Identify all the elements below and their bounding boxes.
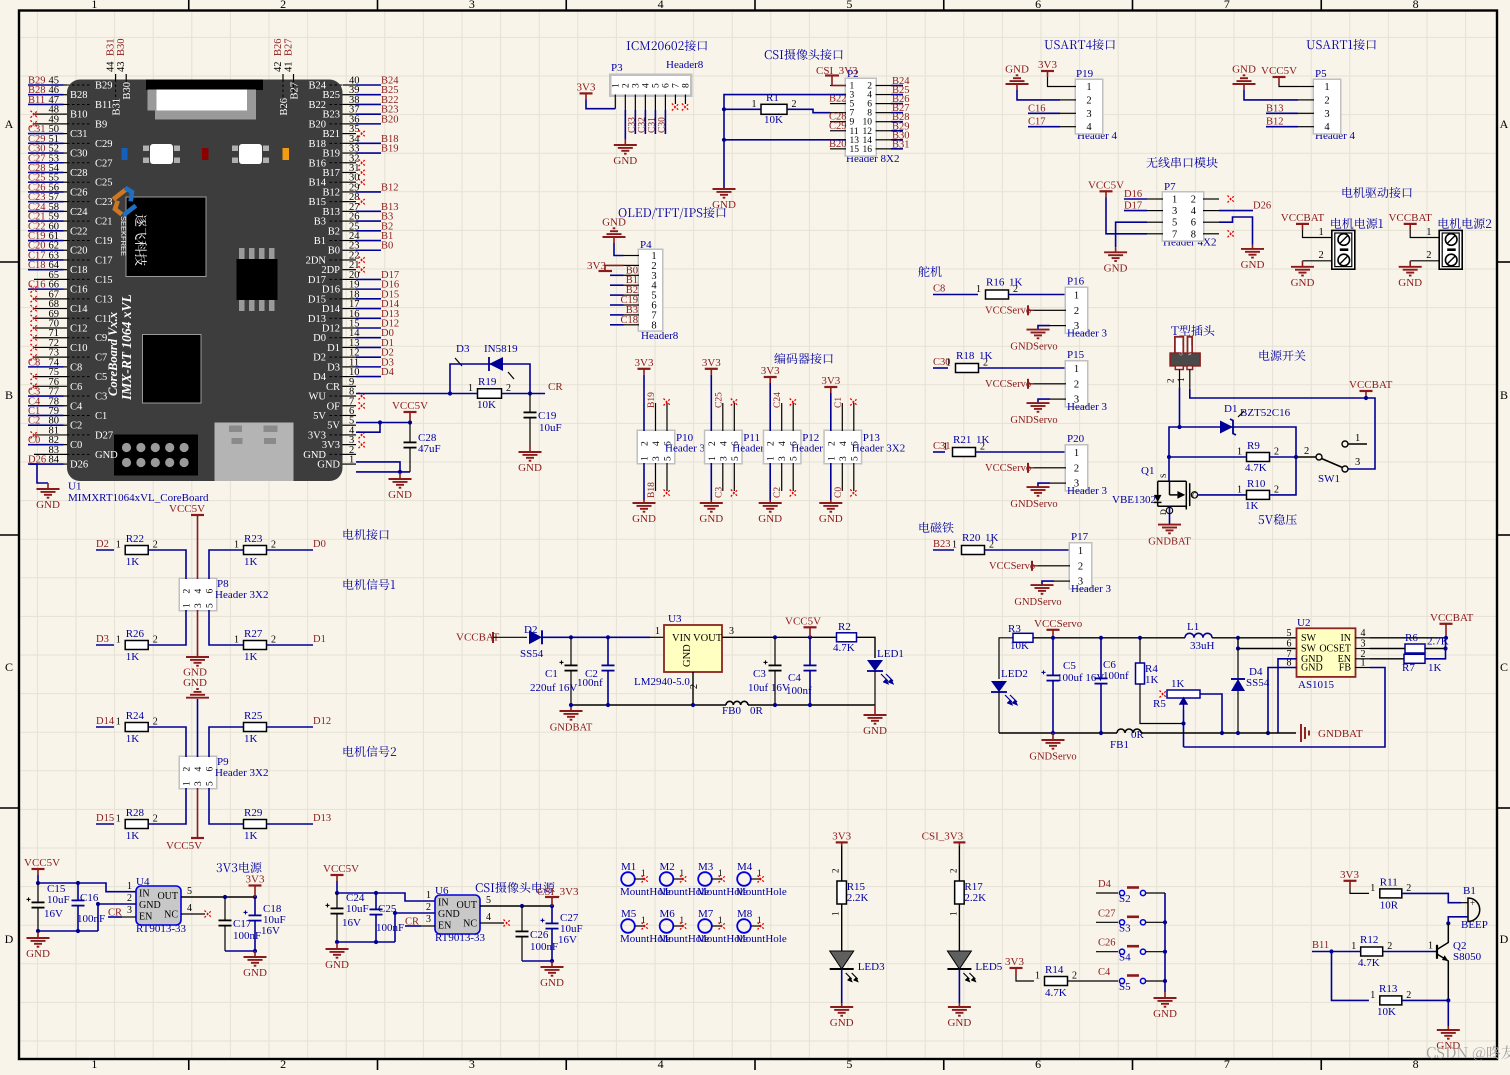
ground GND under P10 <box>643 500 645 503</box>
wire U1 pin1 GND to node <box>356 471 410 473</box>
net label C30 at P3 pin6 <box>664 110 666 134</box>
svg-text:1: 1 <box>116 635 121 646</box>
svg-text:L1: L1 <box>1187 621 1199 633</box>
svg-text:C0: C0 <box>70 440 82 451</box>
svg-text:7: 7 <box>1224 0 1230 11</box>
svg-text:GND: GND <box>1241 259 1265 271</box>
svg-text:R3: R3 <box>1008 623 1021 635</box>
svg-text:VCC5V: VCC5V <box>1261 65 1297 77</box>
power VCC5V at P5 pin1 <box>1273 76 1286 78</box>
svg-text:8: 8 <box>1191 229 1196 240</box>
svg-text:44: 44 <box>106 61 117 72</box>
ground GND under C24 <box>337 941 395 943</box>
U1 pin 60 (C22) left <box>28 230 64 232</box>
no-connect U4 NC pin4 <box>181 913 205 915</box>
svg-text:C18: C18 <box>70 265 88 276</box>
svg-text:1: 1 <box>827 456 837 461</box>
U1 pin 50 (C31) left <box>28 133 64 135</box>
U1 pin 33 (B19) right <box>343 152 357 154</box>
wire VCC5V to P5 pin1 <box>1279 83 1298 87</box>
ground GND right of P7 <box>1252 245 1254 249</box>
svg-text:C27: C27 <box>95 158 113 169</box>
wire GNDServo to P16 pin3 <box>1038 326 1050 330</box>
power VCCBAT at 电机电源2 <box>1404 223 1417 225</box>
svg-text:2: 2 <box>426 902 431 913</box>
svg-text:3: 3 <box>1074 479 1079 490</box>
svg-text:10R: 10R <box>1380 899 1399 911</box>
svg-text:C21: C21 <box>95 217 113 228</box>
U1 pin 64 (C18) left <box>28 269 64 271</box>
svg-text:2: 2 <box>183 767 193 772</box>
svg-text:1: 1 <box>1324 82 1329 93</box>
svg-text:5V: 5V <box>313 411 326 422</box>
svg-text:GND: GND <box>243 967 267 979</box>
wire U6 GND pin2 <box>395 913 435 942</box>
ground GND under LED3 <box>841 1003 843 1007</box>
svg-text:10uF: 10uF <box>539 422 562 434</box>
wire GND to P4 pin1 <box>614 243 624 256</box>
ground GND under C15 <box>38 930 98 932</box>
wire R2 to LED1 <box>857 637 876 658</box>
svg-text:VBE1302: VBE1302 <box>1112 494 1156 506</box>
wire header col3 to R25 pin1 <box>209 727 244 757</box>
wire header col3 to R23 pin1 <box>209 550 244 579</box>
U1 pin 7 (OF) right <box>343 405 357 407</box>
svg-text:CR: CR <box>548 381 563 393</box>
svg-text:C8: C8 <box>70 362 82 373</box>
junction D1 node <box>1167 455 1171 459</box>
wire GND to P19 pin2 <box>1017 90 1060 100</box>
svg-text:0R: 0R <box>1131 729 1145 741</box>
svg-text:C26: C26 <box>70 187 88 198</box>
ground GND above P5 <box>1243 74 1246 76</box>
resistor R7 1K <box>1404 654 1425 663</box>
svg-text:M5: M5 <box>621 908 637 920</box>
wire VCC5V to P8 pin3 col <box>197 521 199 579</box>
svg-text:C22: C22 <box>70 226 88 237</box>
section title ICM20602接口 <box>627 40 707 51</box>
capacitor C17 100nF <box>224 897 226 920</box>
svg-text:LED2: LED2 <box>1001 668 1028 680</box>
svg-text:G: G <box>1192 491 1198 500</box>
no-connect P10 bottom stubs <box>655 463 657 491</box>
svg-text:4: 4 <box>839 441 849 446</box>
svg-text:100nF: 100nF <box>530 941 558 953</box>
svg-text:VCCServo: VCCServo <box>985 463 1031 474</box>
net label C33 at P3 pin3 <box>634 110 636 134</box>
svg-text:4: 4 <box>1086 122 1092 133</box>
wire 3V3 to P3 pin1 <box>586 99 615 108</box>
svg-text:FB0: FB0 <box>722 705 741 717</box>
svg-text:2: 2 <box>641 441 651 446</box>
connector P11 Header 3X2 <box>704 430 743 465</box>
resistor R10 1K <box>1247 490 1270 499</box>
svg-text:B26: B26 <box>279 98 290 116</box>
capacitor C15 10uF 16V <box>37 883 39 902</box>
svg-text:1: 1 <box>655 626 660 637</box>
svg-text:LM2940-5.0: LM2940-5.0 <box>634 676 690 688</box>
no-connect P7 pin2 <box>1228 196 1235 203</box>
svg-text:D3: D3 <box>327 362 340 373</box>
svg-text:1: 1 <box>183 781 193 786</box>
svg-text:1: 1 <box>1370 990 1375 1001</box>
svg-text:Header 3X2: Header 3X2 <box>215 767 268 779</box>
svg-text:C2: C2 <box>70 421 82 432</box>
svg-text:2.2K: 2.2K <box>964 892 986 904</box>
U1 pin 29 (B12) right <box>343 191 357 193</box>
coreboard button K1 <box>143 146 180 164</box>
svg-text:C0: C0 <box>28 435 40 446</box>
svg-text:SS54: SS54 <box>1246 677 1270 689</box>
svg-text:R13: R13 <box>1379 983 1398 995</box>
wire VCCBAT to SW1 pin3 <box>1348 398 1375 469</box>
svg-text:5: 5 <box>651 83 661 88</box>
svg-text:B20: B20 <box>381 114 399 125</box>
svg-text:GND: GND <box>95 450 118 461</box>
svg-text:C4: C4 <box>1098 967 1111 978</box>
svg-text:1: 1 <box>752 99 757 110</box>
svg-text:2: 2 <box>1086 95 1091 106</box>
svg-text:B3: B3 <box>314 217 326 228</box>
svg-text:2: 2 <box>153 814 158 825</box>
capacitor C28 <box>409 423 411 443</box>
svg-text:D14: D14 <box>96 716 115 727</box>
svg-text:5: 5 <box>206 781 216 786</box>
svg-text:6: 6 <box>661 83 671 88</box>
wire R13 to Q2 emitter node <box>1402 999 1448 1001</box>
svg-text:1K: 1K <box>979 350 993 362</box>
U1 pin 21 (2DP) right <box>343 269 357 271</box>
svg-text:C16: C16 <box>80 892 99 904</box>
svg-text:1K: 1K <box>244 651 258 663</box>
svg-text:CSI_3V3: CSI_3V3 <box>922 831 964 843</box>
svg-text:3: 3 <box>778 456 788 461</box>
svg-text:BEEP: BEEP <box>1461 919 1488 931</box>
coreboard MCU chip 2 <box>143 335 202 404</box>
svg-text:C4: C4 <box>788 672 801 684</box>
U1 pin 72 (C10) left <box>34 346 67 348</box>
svg-text:100nf: 100nf <box>786 685 812 697</box>
svg-text:1: 1 <box>349 455 354 466</box>
svg-text:M7: M7 <box>698 908 714 920</box>
svg-text:VCCBAT: VCCBAT <box>1388 212 1432 224</box>
resistor R2 4.7K <box>837 633 857 642</box>
terminal block 电机电源2 <box>1439 218 1492 229</box>
bottom rail GNDBAT/GND <box>571 704 726 706</box>
U1 pin 48 (B10) left <box>34 113 67 115</box>
svg-text:SW1: SW1 <box>1318 473 1340 485</box>
resistor R21 1K <box>953 448 976 457</box>
svg-text:4: 4 <box>187 903 192 914</box>
coreboard blue LED chip <box>122 148 128 160</box>
svg-text:D1: D1 <box>327 343 340 354</box>
U1 pin 73 (C7) left <box>34 356 67 358</box>
svg-text:M8: M8 <box>737 908 753 920</box>
svg-text:2: 2 <box>153 540 158 551</box>
svg-text:GND: GND <box>1178 345 1183 355</box>
svg-text:3V3: 3V3 <box>577 81 596 93</box>
svg-text:VCC5V: VCC5V <box>785 615 821 627</box>
svg-text:D13: D13 <box>313 813 331 824</box>
ground GND under 电机电源2 <box>1409 261 1411 267</box>
svg-text:2: 2 <box>767 441 777 446</box>
svg-text:16: 16 <box>863 145 873 155</box>
svg-text:7: 7 <box>1172 229 1177 240</box>
capacitor C5 100uf 16V <box>1052 638 1054 675</box>
U1 pin 26 (B3) right <box>343 220 357 222</box>
capacitor C6 100nf <box>1100 638 1102 678</box>
svg-text:5: 5 <box>731 456 741 461</box>
svg-text:2.2K: 2.2K <box>847 892 869 904</box>
wire R15 to LED3 <box>841 904 843 951</box>
resistor R23 1K <box>244 546 267 555</box>
svg-text:2: 2 <box>271 540 276 551</box>
no-connect P12 bottom stubs <box>781 463 783 491</box>
svg-text:2: 2 <box>183 589 193 594</box>
svg-text:1: 1 <box>1172 195 1177 206</box>
resistor R20 1K <box>962 546 985 555</box>
svg-text:GND: GND <box>1301 663 1323 674</box>
U1 pin 49 (B9) left <box>34 123 67 125</box>
wire GND to P7 pin5 <box>1116 222 1147 247</box>
svg-text:GND: GND <box>632 513 656 525</box>
U1 pin 53 (C27) left <box>28 162 64 164</box>
svg-text:6: 6 <box>206 589 216 594</box>
svg-text:1: 1 <box>127 881 132 892</box>
power VCC5V above P8 <box>191 514 204 516</box>
svg-text:MountHole: MountHole <box>736 886 787 898</box>
svg-text:1: 1 <box>468 383 473 394</box>
svg-text:7: 7 <box>671 83 681 88</box>
svg-text:1: 1 <box>116 540 121 551</box>
power 3V3 at R11 <box>1344 880 1357 882</box>
svg-text:C8: C8 <box>933 284 945 295</box>
U3 GND pin2 wire <box>692 672 694 705</box>
svg-text:3: 3 <box>1086 109 1091 120</box>
svg-text:1: 1 <box>1319 227 1324 238</box>
svg-text:8: 8 <box>1413 0 1419 11</box>
svg-text:VCCServo: VCCServo <box>985 305 1031 316</box>
svg-text:+: + <box>1470 898 1475 908</box>
svg-text:1: 1 <box>1086 82 1091 93</box>
svg-text:M3: M3 <box>698 861 714 873</box>
svg-text:1K: 1K <box>126 651 140 663</box>
svg-text:0R: 0R <box>750 705 764 717</box>
svg-text:VCC5V: VCC5V <box>392 400 428 412</box>
svg-text:10uF: 10uF <box>346 903 369 915</box>
svg-text:SW: SW <box>1301 633 1317 644</box>
U1 pin 47 (B11) left <box>28 103 64 105</box>
svg-text:EN: EN <box>139 912 152 923</box>
svg-text:3V3: 3V3 <box>1038 59 1057 71</box>
resistor R6 2.7K <box>1405 644 1425 653</box>
U1 pin 34 (B18) right <box>343 142 357 144</box>
svg-text:R10: R10 <box>1247 478 1266 490</box>
U1 pin 6 (5V) right <box>343 414 357 416</box>
wire R25 pin2 to D12 <box>267 726 314 728</box>
svg-text:4: 4 <box>1324 122 1330 133</box>
ground GND under P8 <box>197 650 199 657</box>
svg-text:C1: C1 <box>95 411 107 422</box>
svg-text:C3: C3 <box>753 668 766 680</box>
svg-text:GND: GND <box>613 155 637 167</box>
U1 pin 37 (B23) right <box>343 113 357 115</box>
svg-text:4: 4 <box>641 83 651 88</box>
svg-text:1: 1 <box>1428 941 1433 952</box>
svg-text:VCC5V: VCC5V <box>1088 179 1124 191</box>
svg-text:2: 2 <box>1387 941 1392 952</box>
svg-text:C17: C17 <box>95 255 113 266</box>
svg-text:8: 8 <box>1413 1057 1419 1070</box>
svg-text:D1: D1 <box>313 634 326 645</box>
svg-text:B10: B10 <box>70 110 88 121</box>
wire S4 to GND rail <box>1146 951 1165 953</box>
U1 pin 82 (C0) left <box>28 444 64 446</box>
svg-text:IMX-RT 1064 xVL: IMX-RT 1064 xVL <box>119 294 134 401</box>
U1 pin 32 (B16) right <box>343 162 357 164</box>
svg-text:C5: C5 <box>95 372 107 383</box>
net label D26 at P7 pin4 <box>1219 210 1253 212</box>
wire R23 pin2 to D0 <box>267 549 314 551</box>
svg-text:R22: R22 <box>126 533 144 545</box>
svg-text:3: 3 <box>426 914 431 925</box>
svg-text:B30: B30 <box>116 38 127 56</box>
svg-text:16V: 16V <box>261 925 280 937</box>
svg-text:1K: 1K <box>244 830 258 842</box>
svg-text:3: 3 <box>194 603 204 608</box>
U1 pin 30 (B14) right <box>343 181 357 183</box>
svg-text:VCC5V: VCC5V <box>323 863 359 875</box>
U1 top pin 44 (B31) <box>115 74 117 80</box>
U1 pin 38 (B22) right <box>343 103 357 105</box>
section title 电机接口 <box>344 529 389 540</box>
U1 pin 65 (C15) left <box>34 278 67 280</box>
ground GNDServo under P16 <box>1027 329 1050 331</box>
resistor R18 1K <box>956 364 979 373</box>
coreboard 8-pin SOIC chip <box>237 259 278 300</box>
svg-text:3V3: 3V3 <box>702 357 721 369</box>
U1 pin 61 (C19) left <box>28 240 64 242</box>
U1 pin 23 (B0) right <box>343 249 357 251</box>
U1 pin 40 (B24) right <box>343 84 357 86</box>
svg-text:LED3: LED3 <box>858 961 885 973</box>
svg-text:3V3: 3V3 <box>1340 869 1359 881</box>
ground GND under C28 <box>399 473 401 479</box>
section title 5V稳压 <box>1259 514 1297 525</box>
svg-text:1K: 1K <box>1145 674 1159 686</box>
svg-text:C29: C29 <box>829 121 847 132</box>
svg-text:S2: S2 <box>1119 893 1131 905</box>
no-connect P3 pin8 <box>682 104 689 111</box>
svg-text:D3: D3 <box>96 634 109 645</box>
coreboard USB-C bottom connector <box>215 423 294 482</box>
svg-text:S: S <box>1159 474 1168 478</box>
svg-text:4: 4 <box>719 441 729 446</box>
coreboard 2x5 debug header <box>114 435 198 476</box>
wire P10 pin2 to GND <box>643 463 645 500</box>
svg-text:D4: D4 <box>313 372 327 383</box>
U1 pin 71 (C9) left <box>34 337 67 339</box>
resistor R1 <box>761 104 787 114</box>
svg-text:GND: GND <box>317 460 340 471</box>
svg-text:CR: CR <box>326 382 340 393</box>
wire R24 pin2 to P9 <box>148 727 186 757</box>
svg-text:GND: GND <box>699 513 723 525</box>
svg-text:VCC5V: VCC5V <box>24 857 60 869</box>
svg-text:GND: GND <box>712 199 736 211</box>
ground GND under P12 <box>769 500 771 503</box>
svg-text:1: 1 <box>1361 658 1366 669</box>
svg-text:R25: R25 <box>244 710 263 722</box>
section title 3V3电源 <box>217 862 262 873</box>
section title 电机信号2 <box>344 746 397 757</box>
power VCCBAT at SW1 <box>1360 390 1373 392</box>
svg-text:GND: GND <box>26 948 50 960</box>
svg-text:VCCBAT: VCCBAT <box>1430 612 1474 624</box>
wire R1 pin2 to P2 pin7 <box>787 109 830 112</box>
connector P8 Header 3X2 <box>179 578 218 612</box>
svg-text:C14: C14 <box>70 304 88 315</box>
section title 舵机 <box>918 266 941 277</box>
svg-text:B23: B23 <box>933 539 951 550</box>
svg-text:B9: B9 <box>95 119 107 130</box>
svg-text:5: 5 <box>486 895 491 906</box>
svg-text:C13: C13 <box>95 294 113 305</box>
bottom rail GNDBAT servo side <box>999 732 1117 734</box>
svg-text:C: C <box>5 660 13 674</box>
resistor R17 2.2K <box>955 881 965 904</box>
svg-text:GND: GND <box>1153 1008 1177 1020</box>
wire R1 pin1 to node <box>724 108 761 110</box>
svg-text:C29: C29 <box>95 139 113 150</box>
connector P13 Header 3X2 <box>823 430 862 465</box>
svg-text:84: 84 <box>49 455 60 466</box>
section title 编码器接口 <box>774 353 832 364</box>
U1 pin 39 (B25) right <box>343 94 357 96</box>
svg-text:1: 1 <box>976 284 981 295</box>
svg-text:1: 1 <box>708 456 718 461</box>
svg-text:2: 2 <box>1406 883 1411 894</box>
svg-text:3: 3 <box>1078 577 1083 588</box>
svg-text:GND: GND <box>1232 63 1256 75</box>
svg-text:2: 2 <box>1072 971 1077 982</box>
svg-text:16V: 16V <box>44 908 63 920</box>
svg-text:6: 6 <box>1035 0 1041 11</box>
svg-text:4: 4 <box>486 912 491 923</box>
svg-text:1: 1 <box>952 540 957 551</box>
wire S2 to GND rail <box>1146 892 1165 894</box>
wire R22 pin2 to P8 <box>148 550 186 579</box>
svg-text:4: 4 <box>194 767 204 772</box>
svg-text:D26: D26 <box>1253 201 1271 212</box>
svg-text:B: B <box>1500 388 1508 402</box>
wire GND to 电机电源2 pin2 <box>1410 260 1439 262</box>
svg-text:VOUT: VOUT <box>693 633 723 644</box>
svg-text:FB: FB <box>1339 663 1352 674</box>
svg-text:R19: R19 <box>478 376 497 388</box>
wire U2 OCSET pin3 via R6 <box>1370 648 1405 650</box>
wire GND to 电机电源1 pin2 <box>1303 260 1332 262</box>
svg-text:10K: 10K <box>764 114 783 126</box>
svg-text:1: 1 <box>234 540 239 551</box>
svg-text:C23: C23 <box>95 197 113 208</box>
capacitor C4 100nf <box>809 637 811 665</box>
coreboard red LED chip <box>202 148 209 160</box>
U1 pin 70 (C12) left <box>34 327 67 329</box>
svg-text:5: 5 <box>846 1057 852 1070</box>
svg-text:4: 4 <box>1191 206 1197 217</box>
svg-text:42: 42 <box>273 62 284 73</box>
